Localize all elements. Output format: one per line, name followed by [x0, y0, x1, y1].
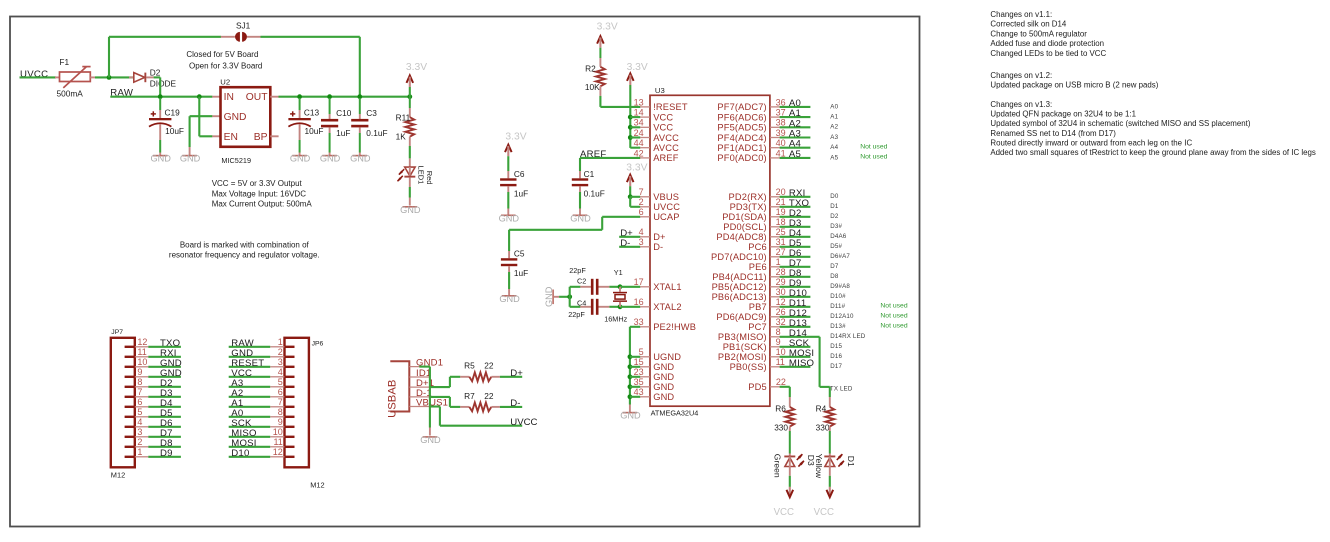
- net label MISO: [789, 358, 814, 369]
- svg-text:D11#: D11#: [830, 303, 845, 310]
- svg-text:2: 2: [137, 437, 142, 447]
- svg-text:10uF: 10uF: [305, 126, 324, 136]
- pin number 10: [273, 427, 283, 437]
- svg-text:8: 8: [278, 407, 283, 417]
- svg-text:11: 11: [776, 357, 785, 367]
- svg-text:UCAP: UCAP: [653, 212, 679, 222]
- wire D10: [229, 456, 271, 458]
- pin 13 !RESET: [634, 97, 688, 112]
- pin line JP6-11: [270, 446, 284, 448]
- svg-text:PE2!HWB: PE2!HWB: [653, 322, 696, 332]
- svg-text:PB6(ADC13): PB6(ADC13): [712, 292, 767, 302]
- pin number 7: [137, 387, 142, 397]
- supply 3.3V above R2: [597, 22, 618, 48]
- pin name VBUS1: [416, 398, 448, 409]
- net label VCC: [231, 368, 252, 379]
- svg-text:15: 15: [634, 357, 644, 367]
- svg-text:14: 14: [634, 108, 644, 118]
- pin line USB D-1: [409, 396, 430, 398]
- annotation D16: [830, 353, 842, 360]
- annotation Not used D11: [880, 303, 907, 310]
- svg-text:43: 43: [634, 387, 644, 397]
- pin name GND1: [416, 358, 443, 369]
- net label D+ at chip: [620, 228, 633, 239]
- wire 3.3V to VBUS: [629, 186, 631, 197]
- svg-text:DIODE: DIODE: [150, 78, 177, 88]
- pin number 3: [278, 357, 283, 367]
- wire D3 net: [780, 226, 811, 228]
- pin 32 PC7: [748, 317, 785, 332]
- svg-text:!RESET: !RESET: [653, 102, 688, 112]
- svg-text:VCC: VCC: [814, 507, 834, 518]
- svg-text:A1: A1: [830, 114, 838, 121]
- wire D6: [148, 426, 181, 428]
- pin line JP7-6: [135, 406, 149, 408]
- svg-text:0.1uF: 0.1uF: [366, 128, 387, 138]
- svg-text:Changed LEDs to be tied to VCC: Changed LEDs to be tied to VCC: [990, 49, 1106, 58]
- net label D4: [789, 228, 802, 239]
- junction VCC 14: [628, 115, 633, 120]
- junction gnd row 2: [628, 374, 633, 379]
- svg-text:U2: U2: [220, 78, 230, 87]
- svg-text:LED1: LED1: [417, 166, 426, 185]
- svg-text:GND: GND: [350, 154, 371, 164]
- net label A3: [789, 129, 801, 140]
- pin number 6: [137, 397, 142, 407]
- pin line JP7-12: [135, 346, 149, 348]
- svg-text:Updated symbol of 32U4 in sche: Updated symbol of 32U4 in schematic (swi…: [990, 119, 1250, 128]
- svg-text:20: 20: [776, 187, 786, 197]
- wire D12 net: [780, 316, 811, 318]
- svg-text:D2: D2: [150, 68, 161, 78]
- junction RAW/EN: [197, 94, 202, 99]
- svg-text:10K: 10K: [585, 82, 600, 92]
- wire MISO: [229, 436, 271, 438]
- net label RAW: [110, 88, 134, 99]
- pin stub JP6-8: [285, 416, 295, 418]
- junction RAW/C19: [158, 94, 163, 99]
- annotation Not used A5: [860, 154, 887, 161]
- junction UVCC/SJ1: [107, 75, 112, 80]
- pin stub JP7-1: [125, 456, 135, 458]
- pin number 11: [273, 437, 282, 447]
- wire LED1 to gnd: [409, 187, 411, 198]
- svg-text:10: 10: [137, 357, 147, 367]
- pin 14 VCC: [634, 108, 674, 123]
- wire C4 to XTAL2: [609, 306, 620, 308]
- pin 42 AREF: [634, 148, 679, 163]
- stub C5 gnd: [508, 289, 510, 296]
- pin line JP7-4: [135, 426, 149, 428]
- wire TXO: [148, 346, 181, 348]
- wire U2 GND to ground: [190, 116, 213, 147]
- wire D4: [148, 406, 181, 408]
- net label UVCC bottom: [510, 417, 537, 428]
- supply 3.3V above VCC pins: [627, 62, 648, 85]
- wire PE2 to gnd chain: [630, 327, 640, 405]
- net label D4: [160, 398, 173, 409]
- pin stub JP7-8: [125, 386, 135, 388]
- annotation D15: [830, 343, 842, 350]
- wire D10 net: [780, 296, 811, 298]
- pin 2 UVCC: [639, 197, 681, 212]
- svg-text:2: 2: [278, 347, 283, 357]
- svg-text:UGND: UGND: [653, 352, 681, 362]
- pin line JP6-1: [270, 346, 284, 348]
- wire A4 net: [780, 147, 811, 149]
- svg-text:Not used: Not used: [880, 313, 907, 320]
- wire SJ1 to riser: [261, 36, 360, 38]
- wire MOSI: [229, 446, 271, 448]
- wire to pin 14: [630, 116, 640, 118]
- svg-text:D13#: D13#: [830, 323, 846, 330]
- svg-text:Added fuse and diode protectio: Added fuse and diode protection: [990, 39, 1104, 48]
- svg-text:PF6(ADC6): PF6(ADC6): [717, 112, 766, 122]
- svg-text:Updated QFN package on 32U4 to: Updated QFN package on 32U4 to be 1:1: [990, 110, 1136, 119]
- svg-text:GND: GND: [653, 372, 674, 382]
- wire C2 to XTAL1: [609, 286, 620, 288]
- svg-text:GND: GND: [224, 112, 247, 123]
- svg-text:36: 36: [776, 97, 786, 107]
- wire gnd pin row 0: [630, 356, 640, 358]
- pin line JP7-10: [135, 366, 149, 368]
- net label MOSI: [789, 348, 814, 359]
- net label A2: [231, 388, 243, 399]
- pin number 8: [137, 377, 142, 387]
- wire GND1 down: [419, 367, 430, 428]
- wire to C4: [570, 306, 581, 308]
- svg-text:39: 39: [776, 128, 786, 138]
- svg-text:PE6: PE6: [749, 262, 767, 272]
- capacitor C2: [569, 266, 609, 295]
- pin line JP7-11: [135, 356, 149, 358]
- pin 3 D-: [639, 237, 664, 252]
- pin name D-1: [416, 388, 432, 399]
- net label MISO: [231, 428, 256, 439]
- wire SCK: [229, 426, 271, 428]
- svg-text:PB1(SCK): PB1(SCK): [723, 342, 767, 352]
- svg-text:D17: D17: [830, 363, 842, 370]
- svg-text:1: 1: [137, 447, 142, 457]
- svg-text:22: 22: [484, 391, 494, 401]
- pin stub JP6-12: [285, 456, 295, 458]
- USB connector USBAB: [386, 361, 409, 418]
- svg-text:2: 2: [639, 197, 644, 207]
- stub C6 bottom: [507, 186, 509, 192]
- annotation Not used A4: [860, 143, 887, 150]
- svg-text:IN: IN: [224, 92, 234, 103]
- annotation A5: [830, 154, 838, 161]
- svg-text:3: 3: [639, 237, 644, 247]
- svg-text:A3: A3: [830, 134, 838, 141]
- svg-text:24: 24: [634, 128, 644, 138]
- pin name ID1: [416, 368, 431, 379]
- svg-text:VCC: VCC: [653, 123, 673, 133]
- pin line JP7-5: [135, 416, 149, 418]
- svg-text:C3: C3: [366, 108, 377, 118]
- pin line USB VBUS1: [409, 406, 430, 408]
- svg-text:R11: R11: [396, 113, 411, 123]
- net label A1: [231, 398, 243, 409]
- svg-text:D-: D-: [510, 398, 520, 409]
- svg-text:C6: C6: [514, 169, 525, 179]
- wire RXI: [148, 356, 181, 358]
- svg-text:Max Voltage Input: 16VDC: Max Voltage Input: 16VDC: [212, 189, 307, 198]
- wire A0 net: [780, 106, 811, 108]
- crystal Y1: [604, 268, 627, 324]
- svg-text:PB0(SS): PB0(SS): [730, 362, 767, 372]
- net label GND: [231, 348, 253, 359]
- resistor R11: [396, 97, 415, 146]
- pin line JP6-2: [270, 356, 284, 358]
- svg-text:PD7(ADC10): PD7(ADC10): [711, 252, 767, 262]
- svg-text:30: 30: [776, 287, 786, 297]
- pin SJ1 right: [247, 36, 261, 38]
- net label A1: [789, 108, 801, 119]
- net label UVCC: [20, 69, 48, 80]
- svg-text:PD0(SCL): PD0(SCL): [723, 222, 767, 232]
- pin U2 BP: [270, 135, 278, 137]
- pin 43 GND: [634, 387, 675, 402]
- pin 4 D+: [639, 227, 666, 242]
- svg-text:PD6(ADC9): PD6(ADC9): [716, 312, 766, 322]
- svg-text:GND: GND: [544, 286, 554, 307]
- wire D2 net: [780, 216, 811, 218]
- svg-text:1K: 1K: [396, 132, 407, 142]
- svg-text:Not used: Not used: [880, 323, 907, 330]
- svg-text:C13: C13: [304, 108, 320, 118]
- junction C2/C4 gnd: [567, 294, 572, 299]
- net label TX LED: [830, 386, 853, 393]
- pin 20 PD2(RX): [729, 187, 786, 202]
- net label D3: [160, 388, 173, 399]
- schematic frame: [10, 17, 920, 527]
- pin number 9: [278, 417, 283, 427]
- svg-text:XTAL1: XTAL1: [653, 282, 681, 292]
- svg-text:Max Current Output: 500mA: Max Current Output: 500mA: [212, 200, 313, 209]
- svg-text:22pF: 22pF: [569, 266, 586, 275]
- svg-text:5: 5: [639, 347, 644, 357]
- annotation A1: [830, 114, 838, 121]
- pin U2 GND: [212, 115, 220, 117]
- svg-text:35: 35: [634, 377, 644, 387]
- net label A3: [231, 378, 243, 389]
- solder jumper SJ1: [235, 21, 251, 42]
- wire D8: [148, 446, 181, 448]
- svg-text:5: 5: [137, 407, 142, 417]
- regulator U2 MIC5219: [220, 78, 270, 165]
- svg-text:37: 37: [776, 108, 786, 118]
- wire RAW: [229, 346, 271, 348]
- wire to pin 24: [630, 136, 640, 138]
- pin 31 PC6: [748, 237, 785, 252]
- svg-text:Added two small squares of tRe: Added two small squares of tRestrict to …: [990, 148, 1315, 157]
- pin line USB GND1: [409, 366, 430, 368]
- pin line JP6-4: [270, 376, 284, 378]
- net label RXI: [160, 348, 177, 359]
- annotation D8: [830, 273, 839, 280]
- svg-text:9: 9: [137, 367, 142, 377]
- svg-text:Closed for 5V Board: Closed for 5V Board: [186, 50, 258, 59]
- pin 12 PB7: [749, 297, 786, 312]
- pin line JP7-3: [135, 436, 149, 438]
- svg-text:C2: C2: [577, 277, 586, 286]
- pin line USB D+1: [409, 386, 430, 388]
- ground: [350, 154, 371, 164]
- wire AREF: [580, 157, 640, 159]
- svg-text:PB7: PB7: [749, 302, 767, 312]
- annotation Not used D13: [880, 323, 907, 330]
- svg-text:D1: D1: [830, 203, 839, 210]
- capacitor C4: [568, 298, 609, 319]
- pin stub JP6-1: [285, 346, 295, 348]
- junction VCC 34: [628, 125, 633, 130]
- stub C1 bottom: [579, 186, 581, 192]
- pin number 2: [137, 437, 142, 447]
- svg-text:R4: R4: [816, 404, 827, 414]
- svg-text:3: 3: [137, 427, 142, 437]
- svg-text:Changes on v1.3:: Changes on v1.3:: [990, 100, 1052, 109]
- wire C1 to gnd: [579, 192, 581, 209]
- pin line JP7-2: [135, 446, 149, 448]
- svg-text:U3: U3: [655, 86, 665, 95]
- svg-text:A0: A0: [830, 103, 838, 110]
- wire A1: [229, 406, 271, 408]
- annotation D4A6: [830, 233, 846, 240]
- svg-text:MIC5219: MIC5219: [221, 156, 251, 165]
- wire A0: [229, 416, 271, 418]
- svg-text:R6: R6: [775, 404, 786, 414]
- capacitor C5: [501, 249, 528, 279]
- wire R7 to D- label: [500, 406, 522, 408]
- net label D9: [789, 278, 802, 289]
- wire TXO net: [780, 206, 811, 208]
- stub C6 gnd: [507, 209, 509, 216]
- svg-text:3.3V: 3.3V: [505, 132, 526, 143]
- svg-text:resonator frequency and regula: resonator frequency and regulator voltag…: [169, 251, 320, 260]
- wire to C2: [570, 286, 581, 288]
- svg-text:BP: BP: [254, 132, 268, 143]
- pin of F1 left: [55, 76, 60, 78]
- svg-text:38: 38: [776, 118, 786, 128]
- pin line JP6-7: [270, 406, 284, 408]
- junction C10: [327, 94, 332, 99]
- svg-text:6: 6: [278, 387, 283, 397]
- wire OUT rail: [279, 96, 410, 98]
- svg-text:31: 31: [776, 237, 786, 247]
- pin number 3: [137, 427, 142, 437]
- wire to pin 34: [630, 126, 640, 128]
- wire SCK net: [780, 346, 811, 348]
- svg-text:330: 330: [816, 422, 830, 432]
- resistor R4: [816, 404, 835, 433]
- svg-text:D12A10: D12A10: [830, 313, 854, 320]
- svg-text:21: 21: [776, 197, 786, 207]
- svg-text:D5#: D5#: [830, 243, 842, 250]
- annotation D3#: [830, 223, 842, 230]
- wire TX LED net: [820, 337, 830, 397]
- stub R6 top: [789, 397, 791, 407]
- annotation D1: [830, 203, 839, 210]
- resistor R5: [460, 361, 500, 382]
- wire R11 to LED1: [409, 146, 411, 158]
- pin line JP6-6: [270, 396, 284, 398]
- pin U2 OUT: [270, 96, 278, 98]
- pin number 11: [137, 347, 146, 357]
- svg-text:Board is marked with combinati: Board is marked with combination of: [180, 240, 310, 249]
- pin line JP7-1: [135, 456, 149, 458]
- annotation Not used D12: [880, 313, 907, 320]
- pin 27 PD7(ADC10): [711, 247, 786, 262]
- svg-text:6: 6: [639, 207, 644, 217]
- svg-text:34: 34: [634, 118, 644, 128]
- svg-text:11: 11: [137, 347, 146, 357]
- svg-text:1uF: 1uF: [514, 188, 528, 198]
- stub U3 gnd: [629, 405, 631, 413]
- svg-text:PF4(ADC4): PF4(ADC4): [717, 133, 766, 143]
- pin 5 UGND: [639, 347, 682, 362]
- svg-text:JP6: JP6: [312, 340, 324, 347]
- svg-text:Changes on v1.1:: Changes on v1.1:: [990, 10, 1052, 19]
- wire gnd pin row 3: [630, 386, 640, 388]
- svg-text:D16: D16: [830, 353, 842, 360]
- pin line JP6-5: [270, 386, 284, 388]
- net label RESET: [231, 358, 264, 369]
- svg-text:Changes on v1.2:: Changes on v1.2:: [990, 71, 1052, 80]
- annotation D5#: [830, 243, 842, 250]
- junction gnd row 3: [628, 384, 633, 389]
- svg-text:PD3(TX): PD3(TX): [730, 202, 767, 212]
- wire gnd pin row 4: [630, 396, 640, 398]
- svg-text:Renamed SS net to D14 (from D1: Renamed SS net to D14 (from D17): [990, 129, 1116, 138]
- wire D2 to RAW riser: [154, 76, 161, 78]
- annotation A2: [830, 124, 838, 131]
- annotation D13#: [830, 323, 846, 330]
- wire A2 net: [780, 126, 811, 128]
- svg-text:GND: GND: [290, 154, 311, 164]
- svg-text:D1: D1: [846, 456, 856, 467]
- net label A0: [789, 98, 801, 109]
- svg-text:PD2(RX): PD2(RX): [729, 192, 767, 202]
- capacitor C19: [149, 98, 184, 155]
- svg-text:VCC = 5V or 3.3V Output: VCC = 5V or 3.3V Output: [212, 179, 303, 188]
- net label D8: [160, 438, 173, 449]
- junction gnd row 4: [628, 394, 633, 399]
- pin 16 XTAL2: [634, 297, 682, 312]
- wire A3 net: [780, 136, 811, 138]
- svg-text:Green: Green: [773, 454, 783, 478]
- capacitor C10: [321, 98, 352, 155]
- svg-text:9: 9: [278, 417, 283, 427]
- svg-text:1: 1: [278, 337, 283, 347]
- pin stub JP7-5: [125, 416, 135, 418]
- note regulator outputs: [212, 179, 313, 208]
- resistor R6: [774, 404, 794, 433]
- pin line JP6-10: [270, 436, 284, 438]
- net label D- at chip: [620, 238, 630, 249]
- svg-text:26: 26: [776, 307, 786, 317]
- annotation D10#: [830, 293, 846, 300]
- wire XTAL1 pin: [620, 286, 640, 288]
- stub USB gnd: [429, 428, 431, 436]
- wire D9 net: [780, 286, 811, 288]
- svg-text:10uF: 10uF: [165, 126, 184, 136]
- svg-text:3.3V: 3.3V: [626, 162, 647, 173]
- svg-text:D+: D+: [510, 368, 523, 379]
- svg-text:12: 12: [273, 447, 283, 457]
- connector JP7 body: [111, 329, 135, 479]
- svg-text:PB2(MOSI): PB2(MOSI): [718, 352, 767, 362]
